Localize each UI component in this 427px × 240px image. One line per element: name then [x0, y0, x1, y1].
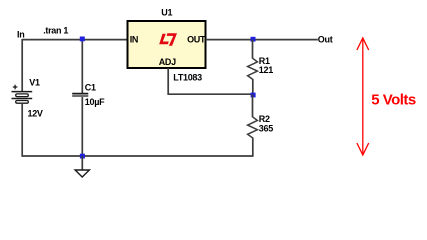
svg-text:5 Volts: 5 Volts: [371, 91, 416, 108]
junction dot at ADJ/R1/R2: [251, 93, 256, 98]
svg-text:C1: C1: [85, 83, 96, 93]
svg-text:121: 121: [259, 65, 273, 75]
wire: left vertical from In corner down to battery top: [21, 39, 23, 92]
wire: OUT pin to Out node: [206, 39, 318, 41]
svg-text:10µF: 10µF: [85, 97, 105, 107]
wire: C1 vertical from top rail down to capacitor: [81, 40, 83, 94]
wire: ADJ pin down and right to junction: [168, 68, 252, 94]
ground symbol triangle: [75, 170, 89, 177]
junction dot at OUT/R1: [251, 37, 256, 42]
resistor R2 zigzag: [248, 117, 258, 138]
annotation arrow head top: [357, 38, 369, 50]
svg-text:.tran 1: .tran 1: [43, 26, 68, 36]
capacitor C1 bottom plate: [72, 95, 88, 97]
voltage source V1 battery symbol: [12, 92, 33, 104]
annotation arrow head bottom: [357, 143, 369, 155]
svg-text:Out: Out: [318, 35, 333, 45]
wire: capacitor bottom to ground rail: [81, 97, 83, 156]
svg-text:LT1083: LT1083: [173, 73, 202, 83]
svg-text:IN: IN: [130, 35, 138, 45]
resistor R2 bottom lead: [252, 138, 254, 157]
plus sign of V1: [13, 85, 18, 90]
svg-text:ADJ: ADJ: [159, 57, 176, 67]
resistor R1 top lead: [252, 40, 254, 59]
resistor R1 bottom lead: [252, 79, 254, 94]
wire: bottom ground rail: [22, 155, 254, 157]
capacitor C1 top plate: [72, 93, 88, 95]
junction dot at ground rail: [80, 154, 85, 159]
resistor R1 zigzag: [248, 58, 258, 79]
svg-text:U1: U1: [161, 8, 172, 18]
svg-text:12V: 12V: [28, 108, 43, 118]
svg-text:In: In: [17, 30, 24, 40]
regulator U1 body: [128, 21, 206, 68]
LT logo letter T: [167, 33, 177, 45]
annotation arrow shaft 5 Volts: [362, 38, 364, 155]
junction dot at C1 top: [80, 37, 85, 42]
svg-text:OUT: OUT: [187, 35, 206, 45]
LT logo letter L: [159, 34, 169, 44]
wire: battery bottom to ground rail: [21, 103, 23, 156]
wire: top rail from In corner to U1 IN pin: [22, 39, 127, 41]
svg-text:V1: V1: [29, 78, 40, 88]
resistor R2 top lead: [252, 94, 254, 117]
svg-text:365: 365: [259, 123, 273, 133]
ground symbol stub: [81, 156, 83, 170]
